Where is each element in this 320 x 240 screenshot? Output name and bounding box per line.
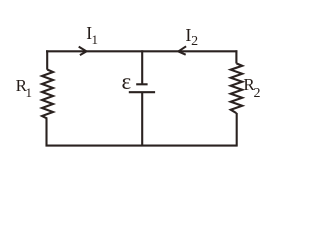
wire right upper — [235, 50, 237, 63]
current arrow I1 (points right) — [79, 47, 87, 56]
wire middle lower — [141, 92, 143, 146]
label epsilon (EMF) — [122, 69, 132, 95]
wire left lower — [45, 118, 47, 146]
current arrow I2 (points left) — [178, 46, 186, 54]
wire right lower — [236, 113, 238, 147]
battery EMF source: long plate — [129, 91, 155, 93]
wire bottom — [46, 145, 238, 147]
battery EMF source: short plate — [136, 83, 147, 85]
label R1 — [16, 76, 32, 101]
resistor R2 — [231, 63, 243, 113]
wire top — [46, 50, 237, 52]
label I2 — [185, 25, 198, 50]
wire middle upper — [141, 50, 143, 84]
label I1 — [86, 23, 98, 48]
wire left upper — [46, 50, 48, 69]
resistor R1 — [42, 70, 53, 119]
label R2 — [243, 75, 260, 102]
